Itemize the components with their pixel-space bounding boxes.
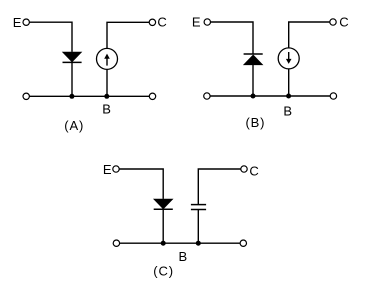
svg-text:(C): (C)	[153, 264, 173, 279]
wire current source to node B rail (A)	[106, 69, 108, 96]
svg-text:B: B	[102, 102, 111, 117]
wire E to diode top (B)	[211, 22, 253, 54]
wire diode to node B rail (C)	[162, 209, 164, 243]
terminal E (C)	[113, 166, 119, 172]
bottom-right terminal (A)	[149, 93, 155, 99]
junction dot capacitor branch (C)	[196, 241, 201, 246]
terminal C (B)	[330, 19, 336, 25]
wire capacitor to node B rail (C)	[197, 210, 199, 244]
bottom-left terminal (C)	[113, 240, 119, 246]
svg-text:E: E	[103, 162, 112, 177]
bottom-right terminal (C)	[240, 240, 246, 246]
bottom-right terminal (B)	[330, 93, 336, 99]
wire C to capacitor top (C)	[198, 169, 241, 205]
bottom rail wire (C)	[120, 242, 240, 244]
bottom rail wire (A)	[30, 95, 150, 97]
wire E to diode top (A)	[30, 22, 72, 52]
wire current source to node B rail (B)	[288, 69, 290, 96]
junction dot diode branch (B)	[251, 94, 256, 99]
wire E to diode top (C)	[119, 169, 163, 199]
wire C to current source top (A)	[107, 22, 149, 48]
terminal E (B)	[204, 19, 210, 25]
junction dot source branch (A)	[104, 94, 109, 99]
svg-text:(B): (B)	[246, 115, 265, 130]
current source (B) arrow down	[278, 48, 299, 69]
svg-text:C: C	[339, 15, 348, 30]
wire diode to node B rail (B)	[252, 65, 254, 96]
bottom-left terminal (A)	[23, 93, 29, 99]
wire C to current source top (B)	[289, 22, 330, 48]
bottom-left terminal (B)	[204, 93, 210, 99]
junction dot source branch (B)	[286, 94, 291, 99]
svg-text:C: C	[157, 14, 166, 29]
diode (B) flipped, cathode bar on top	[244, 54, 263, 65]
terminal E (A)	[23, 19, 29, 25]
junction dot diode branch (A)	[69, 94, 74, 99]
junction dot diode branch (C)	[161, 241, 166, 246]
svg-text:E: E	[13, 15, 22, 30]
terminal C (C)	[241, 166, 247, 172]
bottom rail wire (B)	[210, 95, 330, 97]
svg-text:B: B	[283, 103, 292, 118]
current source (A)	[97, 48, 118, 69]
svg-text:(A): (A)	[64, 118, 83, 133]
svg-text:E: E	[192, 14, 201, 29]
svg-text:C: C	[249, 164, 258, 179]
diode (A)	[63, 52, 82, 62]
wire diode to node B rail (A)	[71, 62, 73, 96]
diode (C)	[154, 199, 173, 209]
svg-text:B: B	[179, 249, 188, 264]
terminal C (A)	[149, 19, 155, 25]
capacitor (C)	[191, 205, 206, 210]
